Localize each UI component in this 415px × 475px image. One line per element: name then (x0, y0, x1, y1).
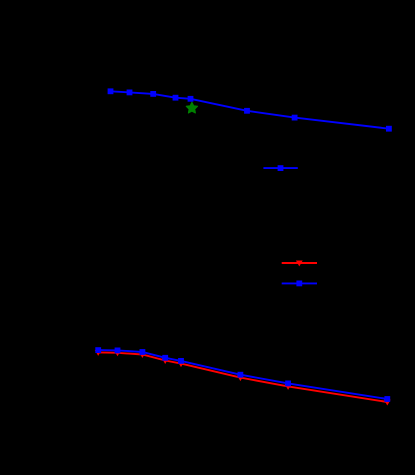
node green star marker (186, 102, 197, 113)
wire bottom blue curve line (98, 350, 387, 399)
node top curve square markers (108, 88, 392, 131)
wire top blue curve line (111, 91, 389, 128)
wire bottom red curve line (98, 352, 387, 402)
legend 1 blue line (263, 167, 297, 169)
legend 2 blue line (282, 282, 317, 284)
legend 2 red triangle marker (296, 261, 303, 267)
node bottom red triangle markers (95, 350, 391, 406)
legend 2 red line (282, 262, 317, 264)
legend 2 blue square marker (296, 281, 302, 287)
node bottom blue square markers (95, 347, 390, 402)
legend 1 square marker (278, 165, 284, 171)
